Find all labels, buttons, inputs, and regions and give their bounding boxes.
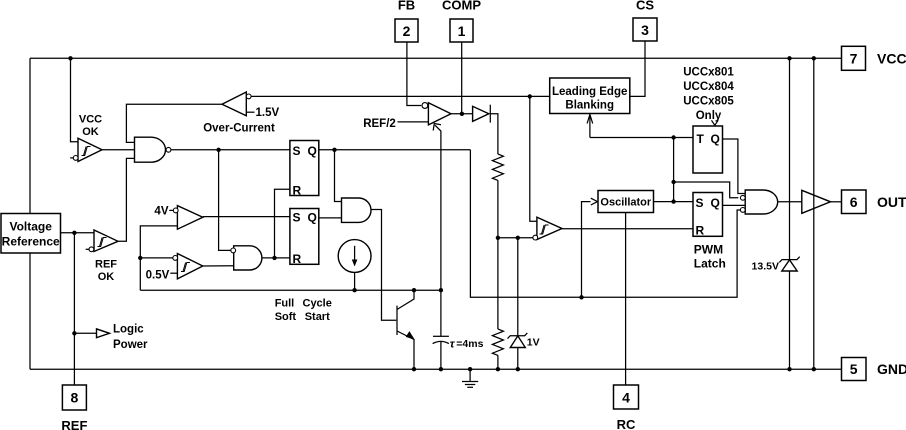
node latch1 Q junction [332, 148, 336, 152]
wire bottom GND rail [30, 368, 842, 370]
pin 2 FB [395, 0, 418, 42]
svg-text:UCCx804: UCCx804 [683, 81, 734, 93]
op-amp Over-Current comparator [203, 92, 279, 135]
svg-text:Leading Edge: Leading Edge [552, 86, 627, 98]
svg-text:4V: 4V [154, 206, 168, 218]
svg-text:S: S [293, 211, 301, 225]
AND gate soft-start reset [231, 246, 262, 270]
svg-text:Over-Current: Over-Current [203, 123, 275, 135]
pin 8 REF [61, 385, 87, 430]
op-amp VCC OK comparator [70, 114, 102, 162]
svg-text:REF/2: REF/2 [363, 118, 396, 130]
wire error amp output [451, 113, 473, 115]
svg-text:S: S [293, 144, 301, 158]
svg-text:Cycle: Cycle [303, 297, 332, 309]
wire LEB clock with arrow [587, 114, 593, 138]
pin 5 GND [842, 358, 906, 381]
svg-text:OUT: OUT [877, 194, 906, 210]
node right rail top [812, 56, 816, 60]
svg-text:7: 7 [850, 51, 858, 67]
wire output gate to driver [778, 201, 802, 203]
node cap junction [439, 288, 443, 292]
svg-text:Full: Full [275, 297, 295, 309]
text full cycle soft start [275, 297, 332, 323]
transistor Q1 soft-start discharge [397, 290, 415, 369]
node cap gnd junction [439, 367, 443, 371]
zener diode 13.5V [752, 257, 800, 273]
svg-text:5: 5 [850, 361, 858, 377]
wire VCC to VCC OK [71, 58, 79, 142]
wire reference output [61, 232, 95, 234]
node NAND output junction [216, 148, 220, 152]
wire latch1 Q output [319, 149, 471, 151]
svg-text:GND: GND [877, 361, 906, 377]
flip-flop latch2 soft start [290, 209, 319, 267]
node oscillator output junction [671, 199, 675, 203]
wire RC to oscillator [625, 213, 627, 386]
wire oscillator input with arrow [582, 198, 598, 297]
wire REF riser [73, 233, 75, 385]
flip-flop latch1 soft start [290, 141, 319, 198]
diode D1 [473, 105, 491, 123]
wire VCC zener rail [789, 58, 791, 369]
node CS sense junction [528, 94, 532, 98]
node R junction [272, 256, 276, 260]
svg-text:REF: REF [95, 259, 117, 271]
wire PWM comparator to R [562, 228, 693, 230]
svg-text:Start: Start [305, 311, 330, 323]
wire driver to pin 6 [831, 201, 842, 203]
op-amp PWM comparator [533, 217, 562, 240]
op-amp 0.5V comparator [146, 254, 203, 282]
svg-text:Voltage: Voltage [9, 220, 52, 234]
wire AND3 output to transistor base [371, 210, 396, 321]
svg-text:UCCx801: UCCx801 [683, 67, 734, 79]
wire T-FF Q to output gate [723, 139, 746, 194]
pin 6 OUT [842, 190, 906, 214]
svg-text:FB: FB [398, 0, 415, 12]
op-amp REF OK comparator [86, 230, 118, 283]
svg-text:Q: Q [711, 196, 720, 210]
wire CS to leading edge blanking [630, 41, 645, 96]
NAND gate U1 [135, 137, 171, 162]
svg-text:8: 8 [71, 390, 79, 406]
wire 4V comp lower input [140, 226, 177, 290]
node REF tap [72, 231, 76, 235]
flip-flop PWM latch [693, 193, 726, 271]
svg-text:1V: 1V [527, 337, 540, 349]
svg-text:RC: RC [617, 417, 636, 430]
wire clock rail to T flip-flop [590, 137, 693, 139]
node zener tap [516, 236, 520, 240]
capacitor C1 soft start [433, 290, 484, 369]
wire latch1 Q feedback down [470, 150, 740, 297]
wire COMP down [461, 42, 463, 114]
pin 3 CS [633, 0, 657, 41]
wire Q junction to AND3 top input [335, 150, 342, 202]
node oscillator input junction [579, 295, 583, 299]
node right rail bottom [812, 367, 816, 371]
wire NAND output to latch S [171, 149, 290, 151]
svg-text:COMP: COMP [442, 0, 481, 12]
wire lower resistor to gnd [497, 355, 499, 369]
wire clock to output gate bubble1 [674, 182, 739, 198]
zener diode 1V [508, 238, 540, 369]
svg-text:R: R [293, 184, 302, 198]
svg-text:Soft: Soft [275, 311, 297, 323]
svg-text:T: T [697, 132, 705, 146]
wire FB to error amp [407, 42, 421, 106]
svg-text:2: 2 [403, 23, 411, 39]
svg-text:Latch: Latch [694, 257, 726, 271]
wire soft-start rail [140, 289, 441, 291]
wire PWM latch Q to output gate [723, 204, 746, 206]
wire R line up to latch1 R [275, 189, 290, 258]
wire resistor to tap [497, 180, 499, 329]
pin 4 RC [614, 385, 639, 430]
wire 4V comp output to latch2 S [203, 216, 290, 218]
wire oscillator output to S [654, 201, 694, 203]
wire clock riser [673, 138, 675, 202]
text UCC variants note [683, 67, 734, 123]
op-amp output driver [802, 190, 831, 213]
node clock mid junction [671, 180, 675, 184]
ground [462, 369, 478, 387]
wire top VCC rail [30, 57, 842, 59]
svg-text:Power: Power [113, 339, 148, 351]
node zener rail bottom [787, 367, 791, 371]
flip-flop T toggle [693, 126, 723, 173]
wire over-current sense to LEB [251, 95, 550, 97]
svg-text:13.5V: 13.5V [752, 261, 779, 273]
svg-text:Q: Q [308, 144, 317, 158]
op-amp 4V comparator [154, 206, 202, 230]
wire right vertical rail [813, 58, 815, 369]
node zener rail top [787, 56, 791, 60]
svg-text:VCC: VCC [877, 51, 906, 67]
node 0.5V branch [138, 256, 142, 260]
svg-text:Oscillator: Oscillator [600, 197, 651, 209]
wire NAND bottom input from REF OK [118, 158, 135, 241]
svg-text:R: R [293, 252, 302, 266]
svg-text:UCCx805: UCCx805 [683, 96, 734, 108]
wire 0.5V comp output to AND [203, 265, 234, 267]
wire CS sense junction riser [530, 96, 537, 221]
node resistor tap [496, 236, 500, 240]
node current source junction [352, 288, 356, 292]
wire NAND junction down to AND bubble [219, 150, 231, 251]
AND gate soft-start discharge [342, 198, 372, 222]
AND gate output stage [740, 190, 777, 214]
pin 7 VCC [842, 46, 906, 70]
wire soft-start clamp riser [435, 125, 441, 290]
svg-text:1: 1 [458, 23, 466, 39]
resistor R1 current sense [492, 154, 503, 180]
resistor R2 lower divider [492, 329, 503, 355]
svg-text:S: S [696, 196, 704, 210]
node COMP junction [460, 112, 464, 116]
node transistor emitter junction [412, 367, 416, 371]
svg-text:Q: Q [308, 211, 317, 225]
wire over-current output to NAND top input [126, 104, 222, 142]
arrow only to T flip-flop [712, 120, 719, 125]
node logic power tap [72, 331, 76, 335]
svg-text:OK: OK [82, 126, 99, 138]
soft-start clamp arrowhead [433, 124, 441, 131]
leading edge blanking block [550, 78, 630, 114]
node zener gnd [516, 367, 520, 371]
wire VCC OK to NAND [102, 149, 135, 151]
wire comparator lower input [498, 237, 533, 239]
svg-text:0.5V: 0.5V [146, 269, 170, 281]
svg-text:Q: Q [711, 132, 720, 146]
svg-text:VCC: VCC [79, 114, 102, 126]
node collector junction [412, 288, 416, 292]
current source I1 [338, 240, 371, 291]
logic power arrow [74, 323, 148, 351]
wire diode to resistor [490, 114, 498, 154]
svg-text:PWM: PWM [694, 243, 723, 257]
svg-text:OK: OK [98, 271, 115, 283]
svg-text:Logic: Logic [113, 323, 144, 335]
svg-text:CS: CS [636, 0, 654, 12]
svg-text:REF: REF [61, 418, 87, 430]
svg-text:6: 6 [850, 194, 858, 210]
op-amp error amplifier [363, 103, 451, 130]
node VCC OK tap [68, 56, 72, 60]
voltage reference block [1, 214, 61, 254]
oscillator block [598, 191, 654, 213]
node clock T junction [671, 135, 675, 139]
svg-text:Blanking: Blanking [565, 99, 614, 111]
wire 0.5V comp upper input [140, 257, 173, 259]
svg-text:4: 4 [622, 390, 630, 406]
wire AND2 output to R line [262, 257, 290, 259]
node resistor gnd [496, 367, 500, 371]
svg-text:1.5V: 1.5V [256, 107, 280, 119]
pin 1 COMP [442, 0, 481, 42]
wire left border [29, 58, 31, 369]
svg-text:3: 3 [641, 22, 649, 38]
node ground junction [468, 367, 472, 371]
wire latch2 Q to AND3 bottom input [319, 217, 342, 219]
svg-text:=4ms: =4ms [456, 338, 483, 350]
svg-text:Reference: Reference [2, 234, 60, 248]
svg-text:R: R [696, 223, 705, 237]
